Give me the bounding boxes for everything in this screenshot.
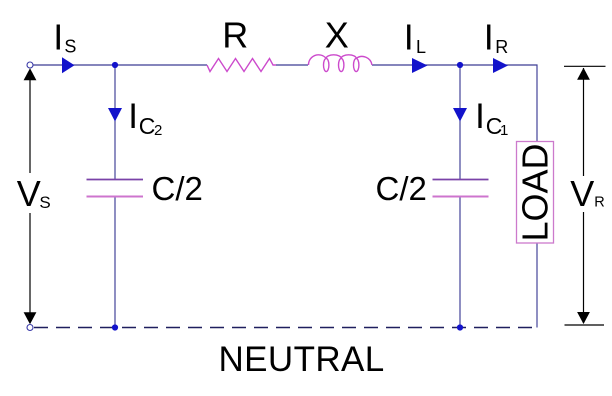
svg-text:R: R [594, 195, 604, 211]
svg-text:I: I [128, 97, 138, 136]
svg-text:C/2: C/2 [376, 170, 427, 207]
svg-text:I: I [53, 16, 63, 57]
svg-text:L: L [416, 37, 426, 57]
svg-text:V: V [17, 173, 41, 214]
svg-text:V: V [570, 173, 594, 214]
svg-text:C/2: C/2 [152, 170, 203, 207]
svg-text:LOAD: LOAD [515, 143, 556, 241]
svg-text:NEUTRAL: NEUTRAL [219, 340, 385, 379]
svg-text:R: R [495, 37, 508, 57]
svg-text:C: C [139, 113, 156, 139]
svg-text:1: 1 [500, 122, 508, 139]
svg-text:X: X [325, 15, 349, 56]
svg-text:S: S [64, 37, 76, 57]
svg-text:I: I [404, 16, 414, 57]
svg-text:2: 2 [154, 122, 162, 139]
svg-text:R: R [222, 15, 248, 56]
svg-text:I: I [484, 16, 494, 57]
svg-text:I: I [475, 97, 485, 136]
svg-text:S: S [39, 193, 50, 212]
